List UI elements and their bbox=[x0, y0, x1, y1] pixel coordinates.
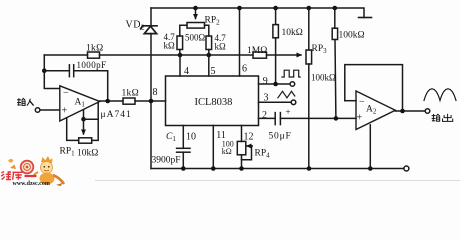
svg-text:RP3: RP3 bbox=[312, 44, 328, 55]
wire cap row bbox=[44, 70, 68, 72]
svg-text:www.dzsc.com: www.dzsc.com bbox=[13, 181, 50, 187]
wire bias horizontal bbox=[84, 118, 99, 120]
wire bottom rail bbox=[151, 168, 404, 170]
capacitor 1000pF bbox=[69, 65, 73, 77]
resistor 1M bbox=[253, 52, 267, 58]
svg-text:−: − bbox=[63, 88, 69, 99]
svg-text:10kΩ: 10kΩ bbox=[282, 28, 303, 38]
node bias-pin4 bbox=[178, 53, 183, 58]
node A1 output bbox=[105, 99, 110, 104]
svg-text:1kΩ: 1kΩ bbox=[86, 44, 103, 54]
resistor 100k pin12 bbox=[237, 141, 246, 154]
power terminal bar bbox=[359, 17, 372, 19]
svg-text:ICL8038: ICL8038 bbox=[195, 97, 233, 108]
svg-text:+: + bbox=[286, 107, 291, 117]
terminal square out bbox=[290, 82, 295, 87]
wire row to RP3 wiper bbox=[267, 54, 302, 56]
svg-text:RP1: RP1 bbox=[60, 147, 76, 158]
node rail-RP3 bbox=[307, 6, 312, 11]
svg-text:1MΩ: 1MΩ bbox=[247, 46, 267, 56]
svg-text:12: 12 bbox=[244, 132, 254, 143]
node rail-100k bbox=[333, 6, 338, 11]
wire C1 to ground rail bbox=[182, 152, 184, 168]
resistor 4.7k left bbox=[177, 36, 183, 50]
node 100k-A2 input bbox=[334, 116, 339, 121]
svg-text:4: 4 bbox=[184, 66, 189, 77]
label output (Chinese) bbox=[432, 114, 453, 122]
wire pin11 bbox=[212, 126, 214, 169]
svg-text:1kΩ: 1kΩ bbox=[122, 89, 139, 99]
terminal input bbox=[35, 108, 40, 113]
svg-text:A2: A2 bbox=[366, 105, 377, 116]
capacitor C1 bbox=[177, 148, 190, 152]
wire pin9 bbox=[259, 83, 291, 85]
svg-text:VD2: VD2 bbox=[126, 20, 145, 32]
resistor 4.7k right bbox=[206, 36, 212, 50]
svg-text:10kΩ: 10kΩ bbox=[77, 149, 98, 159]
node A2 output bbox=[400, 109, 405, 114]
wire A2 feedback loop bbox=[345, 65, 403, 111]
wire pin3 bbox=[259, 101, 292, 103]
wire left bus down bbox=[150, 101, 152, 169]
svg-text:μA741: μA741 bbox=[101, 110, 132, 120]
svg-text:100kΩ: 100kΩ bbox=[339, 31, 365, 41]
wire 4.7k right to row bbox=[208, 50, 210, 56]
wire 100k to rail bbox=[241, 155, 243, 169]
node rail-RP3 bbox=[307, 166, 312, 171]
wire pin12 bbox=[241, 126, 243, 142]
node rail-pin11 bbox=[211, 166, 216, 171]
svg-text:3900pF: 3900pF bbox=[152, 156, 181, 166]
op-amp A2 bbox=[356, 91, 395, 130]
wire A1 inverting input bbox=[44, 55, 60, 89]
wire A2 output bbox=[395, 110, 425, 112]
svg-text:5: 5 bbox=[211, 66, 216, 77]
svg-text:RP4: RP4 bbox=[255, 149, 271, 160]
resistor 100k right bbox=[332, 8, 337, 118]
node feedback-cap bbox=[42, 68, 47, 73]
capacitor 50uF bbox=[275, 113, 280, 125]
label input (Chinese) bbox=[17, 98, 34, 105]
svg-text:3: 3 bbox=[264, 93, 269, 104]
svg-text:kΩ: kΩ bbox=[215, 42, 227, 52]
node pin9-10k bbox=[273, 82, 278, 87]
svg-text:9: 9 bbox=[263, 76, 268, 87]
svg-text:8: 8 bbox=[153, 87, 158, 98]
wire 4.7k left to row bbox=[179, 50, 181, 56]
terminal output bbox=[425, 109, 430, 114]
svg-text:+: + bbox=[62, 106, 68, 117]
svg-text:+: + bbox=[357, 113, 363, 124]
wire pin6 bbox=[239, 8, 241, 76]
node rail-A2 bbox=[368, 166, 373, 171]
op-amp A1 bbox=[60, 86, 100, 121]
wire pin5 bbox=[208, 55, 210, 76]
node bias mid bbox=[81, 117, 86, 122]
wire RP4 wiper bbox=[242, 146, 252, 160]
potentiometer RP2 bbox=[180, 8, 209, 36]
diode VD2 bbox=[141, 26, 157, 34]
wire A1 bias right leg bbox=[97, 103, 99, 119]
wire A1 output bbox=[100, 100, 123, 102]
svg-text:10: 10 bbox=[186, 132, 196, 143]
wire zener to row bbox=[150, 34, 152, 101]
terminal triangle out bbox=[291, 100, 296, 105]
wire zener drop bbox=[150, 8, 152, 26]
resistor 1k output bbox=[123, 98, 135, 104]
svg-text:A1: A1 bbox=[75, 98, 86, 109]
wire A1 bias mid leg bbox=[83, 110, 85, 119]
watermark mascot bbox=[8, 156, 64, 186]
terminal bottom right bbox=[404, 166, 409, 171]
svg-text:500Ω: 500Ω bbox=[185, 33, 206, 43]
node bias-pin5 bbox=[207, 53, 212, 58]
IC ICL8038 box bbox=[166, 76, 259, 126]
watermark text weiku bbox=[1, 172, 37, 180]
wire pin2 bbox=[259, 117, 275, 119]
scan artifact line bbox=[95, 180, 460, 182]
svg-text:kΩ: kΩ bbox=[164, 41, 176, 51]
wire top supply rail bbox=[151, 8, 364, 18]
node rail-10k bbox=[273, 6, 278, 11]
wire pin4 bbox=[179, 55, 181, 76]
node rail-RP2 bbox=[193, 6, 198, 11]
node pin8-bus bbox=[149, 99, 154, 104]
node rail-C1 bbox=[181, 166, 186, 171]
resistor 10k top bbox=[273, 8, 279, 84]
wire pin10 bbox=[182, 126, 184, 149]
icon square wave bbox=[282, 70, 300, 77]
wire to pin8 bbox=[135, 100, 166, 102]
wire RP1 wiper arrow bbox=[83, 119, 85, 134]
node rail-pin6 bbox=[237, 6, 242, 11]
icon triangle wave bbox=[278, 91, 295, 98]
svg-text:6: 6 bbox=[242, 64, 247, 75]
potentiometer RP3 bbox=[306, 8, 312, 169]
svg-text:−: − bbox=[359, 97, 365, 108]
wire cap to output node bbox=[75, 71, 108, 101]
wire A1 bias left leg bbox=[67, 118, 79, 141]
svg-text:C1: C1 bbox=[166, 132, 176, 143]
svg-text:kΩ: kΩ bbox=[222, 147, 232, 156]
svg-text:RP2: RP2 bbox=[205, 16, 221, 27]
potentiometer RP1 bbox=[79, 138, 92, 143]
icon sine wave bbox=[424, 89, 456, 101]
wire A2 inverting input bbox=[345, 100, 356, 102]
wire main bias row bbox=[44, 54, 87, 56]
wire row mid bbox=[100, 54, 254, 56]
resistor 1k feedback bbox=[88, 52, 100, 58]
svg-text:1000pF: 1000pF bbox=[77, 60, 107, 70]
svg-text:50μF: 50μF bbox=[269, 132, 292, 142]
svg-text:100kΩ: 100kΩ bbox=[311, 73, 336, 83]
wire pin2 row to A2 bbox=[280, 117, 356, 119]
node rail-RP4 bbox=[239, 166, 244, 171]
wire A2 bottom pin bbox=[369, 125, 371, 169]
svg-text:2: 2 bbox=[262, 110, 267, 121]
wire A1 noninverting input bbox=[40, 109, 60, 111]
